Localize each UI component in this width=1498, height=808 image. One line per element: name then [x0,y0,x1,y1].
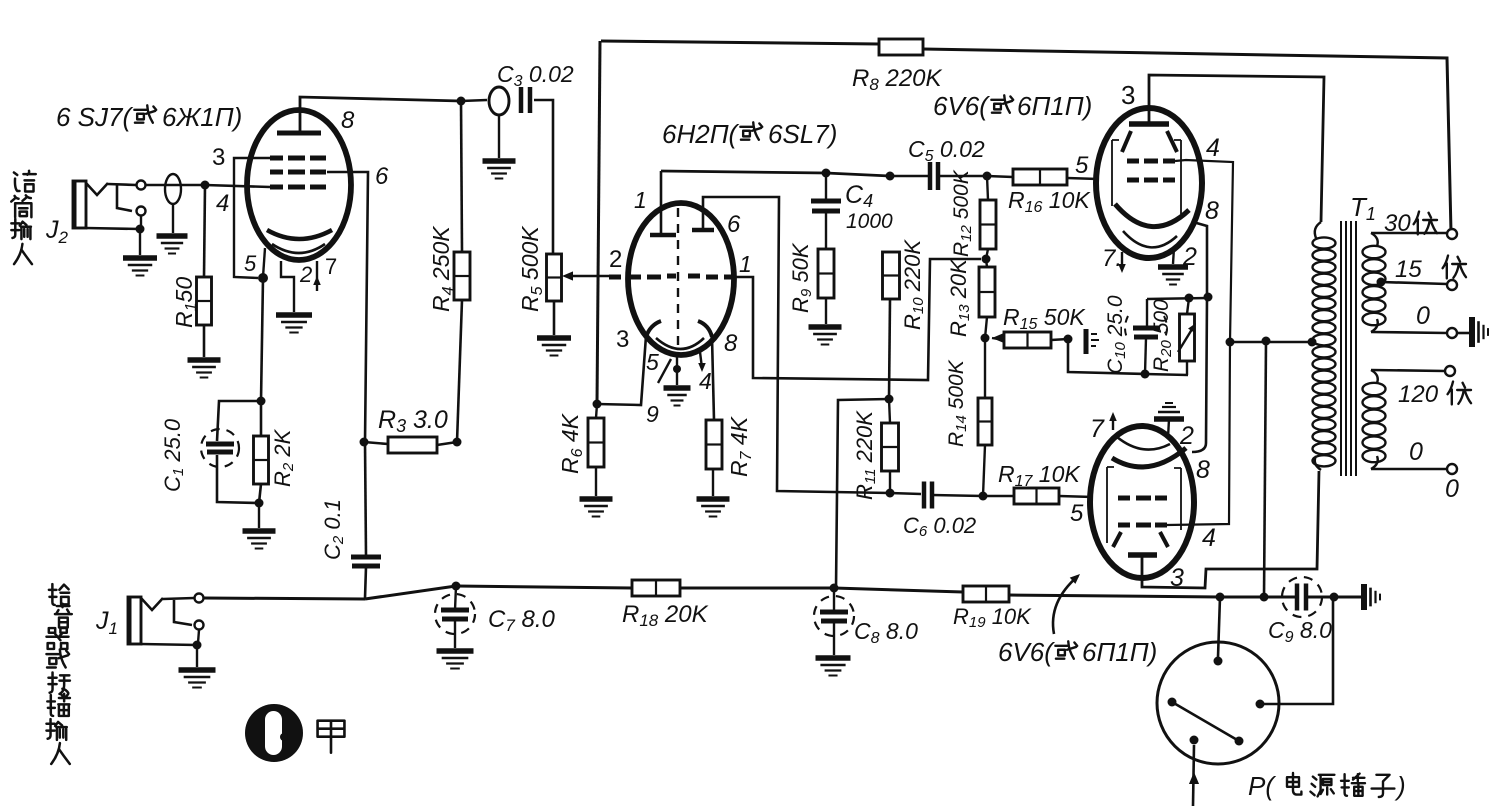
wire R5 wiper from 6H2P grid pin2 [569,275,609,278]
badge filled circle [245,704,303,762]
wire C2 bottom lead [365,567,366,598]
svg-text:8: 8 [724,330,738,357]
jack J2 body [73,181,86,228]
resistor R14 500K [978,398,992,445]
label R11 220K rotated [852,410,879,500]
svg-text:4: 4 [699,368,712,394]
resistor R9 50K [818,249,834,298]
pin label 3 V4 [1170,564,1184,592]
label 0 lower [1409,438,1423,466]
wire R2 ground stem [258,503,260,528]
ground under C3 oval [483,161,516,179]
node 15V tap [1377,278,1386,287]
svg-text:0: 0 [1409,438,1423,466]
label 120V [1398,381,1471,408]
wire grid node to 6SJ7 grid [205,185,270,187]
label R2 2K rotated [270,428,297,487]
node R12 top junction [983,172,992,181]
capacitor C1 dashed circle [201,429,239,467]
svg-text:1000: 1000 [846,210,893,233]
node R10 top junction [886,172,895,181]
svg-text:0: 0 [1416,302,1430,330]
svg-text:R17 10K: R17 10K [998,461,1081,490]
transformer core laminations [1341,221,1356,476]
svg-text:5: 5 [244,251,257,276]
caption pickup input [46,584,71,764]
wire C10 top lead [1146,299,1148,326]
resistor R10 220K [883,252,900,299]
label R14 500K rotated [945,359,970,447]
label jia character [318,721,345,753]
jack J2 ring stub [117,185,132,211]
svg-text:R5 500K: R5 500K [517,225,546,312]
tube V4 plate bar [1128,552,1157,558]
wire R14 top lead [984,338,986,398]
wire R12 bottom lead [986,249,988,259]
wire plate line to C5 [890,175,928,178]
wire C5 to R12 node [938,175,987,178]
pin label 4 V1 [216,190,229,217]
resistor R6 4K [588,418,604,467]
tube V1 grid row pin6 [270,170,326,175]
pin label 8 V4 [1196,456,1210,484]
wire R11 bottom lead [889,471,891,493]
label R7 4K rotated [726,415,755,477]
label R9 50K rotated [788,242,815,313]
wire J2 sleeve line [86,228,140,229]
tube V1 plate bar [277,131,321,136]
node R13R14 junction [981,334,990,343]
svg-text:R8 220K: R8 220K [852,65,943,94]
svg-text:120: 120 [1398,381,1439,408]
wire J1 ground stem [196,645,198,667]
pin label 4 V2 [699,368,712,394]
svg-text:3: 3 [616,326,629,353]
wire R12 top lead [987,176,988,200]
label tube V2 6H2P [662,119,837,149]
tube V3 plate bar [1129,121,1169,127]
wire rail R18 to C8 [680,587,834,590]
svg-text:R20 500: R20 500 [1150,299,1175,372]
capacitor C7 8.0 plates [441,610,469,619]
wire grid line to shield oval [146,184,205,187]
wire R20 bottom lead [1186,361,1188,375]
wire B+ vertical to rail [1264,341,1266,597]
svg-text:3: 3 [1170,564,1184,592]
tube V1 heater arc [272,244,325,253]
capacitor C10 dashed arcs [1125,316,1167,340]
node grid-R1 junction [201,181,210,190]
tube V4 cathode arc [1112,448,1186,467]
svg-text:6SL7): 6SL7) [768,119,837,149]
jack J1 ring stub [174,600,192,625]
label J1 [95,607,118,638]
wire cathode node down to C1R2 [261,278,263,401]
svg-text:R3 3.0: R3 3.0 [378,406,448,436]
wire V3 pin8 cathode lead [1193,222,1207,297]
pin label 6 V1 [375,163,389,190]
tube V4 heater arc [1117,437,1170,450]
wire R7 bottom lead [712,469,714,496]
tube V2 heater arc [656,338,704,349]
C3 shield oval [489,87,509,115]
node C7 junction [452,582,461,591]
wire rail to C9 [1264,596,1296,599]
label R18 20K [622,601,709,630]
label C10 25.0 rotated [1104,295,1129,374]
transformer secondary lower winding [1363,370,1386,469]
svg-text:4: 4 [1206,134,1220,162]
wire rail C8 to R19 [834,588,963,592]
wire R2 bottom lead [259,484,261,503]
wire R15 node down to bias bottom [1068,339,1145,374]
wire R9 bottom lead [825,298,827,324]
svg-text:C2 0.1: C2 0.1 [320,499,347,560]
node R3 left junction [360,438,369,447]
svg-text:C6 0.02: C6 0.02 [903,513,976,540]
ground under R2 [243,531,276,549]
tube V4 beam plate right [1160,532,1168,547]
svg-text:4: 4 [1202,524,1216,552]
label C4 [845,181,893,233]
label 0 corner [1445,475,1459,503]
tube V3 inner box [1112,140,1181,214]
caption microphone input [11,171,36,264]
svg-text:8: 8 [341,107,355,134]
svg-text:R4 250K: R4 250K [428,225,457,312]
ground above V4 inverted [1154,403,1184,419]
ground under R6 [580,499,613,517]
capacitor stub at R15 node [1086,329,1099,354]
wire 0V to ground [1457,332,1470,335]
wire to C3 oval [461,100,487,101]
svg-text:30: 30 [1384,210,1411,237]
wire plate line to R10 [826,173,890,176]
node bias bottom junction [1141,370,1150,379]
terminal 120V [1445,366,1455,376]
wire R11 top lead [889,399,890,423]
tube V1 heater stub pin7 with arrow [313,261,321,291]
svg-text:R16 10K: R16 10K [1008,187,1091,216]
svg-text:8: 8 [1205,197,1219,225]
ground under shield oval [157,236,188,254]
label R13 20K rotated [946,258,973,337]
label R20 500 rotated [1150,299,1175,372]
node R3 right junction [453,438,462,447]
tube V2 grid dashed row [609,276,734,277]
label R4 250K rotated [428,225,457,312]
wire rail C7 to R18 [456,586,632,588]
pin label 3 V2 [616,326,629,353]
label C9 8.0 [1268,617,1332,646]
pin label 5 V4 [1070,500,1084,527]
capacitor C7 dashed circle [435,594,475,634]
resistor R12 500K [980,200,996,249]
capacitor C2 0.1 plates [351,557,381,566]
plug P lower-left pin [1190,736,1199,745]
jack J1 ring contact [195,621,204,630]
wire V2 shield ground stem [676,369,678,385]
svg-text:6: 6 [375,163,389,190]
svg-text:6П1П): 6П1П) [1017,91,1092,121]
plug P top pin [1214,657,1223,666]
node primary centre tap [1308,338,1317,347]
terminal 15V [1447,280,1457,290]
label 0 upper [1416,302,1430,330]
svg-text:R2 2K: R2 2K [270,428,297,487]
plug P shorting bar [1172,702,1239,741]
svg-text:R14 500K: R14 500K [945,359,970,447]
wire C2 node to C7 node [365,586,456,599]
wire R3 left lead [364,442,388,444]
svg-text:6 SJ7(: 6 SJ7( [56,102,133,132]
wire C4 top lead [825,173,827,201]
jack J2 tip contact V [86,183,108,195]
svg-text:R10 220K: R10 220K [900,239,927,330]
transformer secondary upper winding [1363,233,1386,332]
svg-text:7: 7 [1090,415,1105,443]
wire V3 pin4 screen lead [1175,160,1233,342]
wire R10 bottom lead [889,299,890,399]
svg-text:7.: 7. [1102,245,1122,272]
resistor R2 2K [254,436,269,484]
wire 0V tap upper [1371,332,1447,333]
node Bplus rail junction [1260,593,1269,602]
label R5 500K rotated [517,225,546,312]
capacitor C5 0.02 plates [930,162,938,190]
svg-text:2: 2 [609,246,622,273]
label R8 220K [852,65,943,94]
label R1 50 rotated [171,277,200,328]
wire J1 ring to sleeve dot [198,630,199,643]
pin label 5 V3 [1075,152,1089,179]
pin label 1 V2 right [739,251,752,277]
ground under R7 [697,499,730,517]
potentiometer R15 50K with wiper arrow [992,332,1051,348]
wire NFB vertical to R6 node [597,41,600,404]
label tube V4 6V6 [998,637,1157,667]
resistor R7 4K [706,420,722,469]
node R10R11 junction [885,395,894,404]
svg-text:R7 4K: R7 4K [726,415,755,477]
pin label 5 V1 [244,251,257,276]
node B+ vertical junction [1262,337,1271,346]
node R11 bottom junction [886,489,895,498]
terminal 0V lower [1447,464,1457,474]
node C8 junction [830,584,839,593]
tube V3 6V6 envelope [1096,108,1202,258]
wire R6 bottom lead [595,467,597,496]
wire NFB top line right segment [923,49,1451,232]
svg-text:R13 20K: R13 20K [946,258,973,337]
tube V2 cathode hook left [646,321,661,337]
wire V2 pin3 cathode to R6 [597,336,646,405]
wire V2 pin8 cathode to R7 [712,337,714,420]
svg-text:6V6(: 6V6( [998,637,1055,667]
wire to right ground [1334,596,1362,599]
tube V2 shield stem and dot [673,352,681,373]
tube V1 6SJ7 envelope [247,110,351,260]
label J2 [45,216,69,247]
svg-text:R150: R150 [171,277,200,328]
pin label 7 V4 [1090,415,1105,443]
tube V1 heater pin2 path to ground [281,261,294,312]
capacitor C10 25.0 plates [1133,328,1159,337]
wire C1 bottom branch [217,455,259,503]
label tube V1 6SJ7 [56,102,242,132]
wire V4 pin4 screen lead [1167,342,1230,525]
wire R1 top lead [204,185,205,277]
ground under R1 [188,360,221,378]
svg-text:C10 25.0: C10 25.0 [1104,295,1129,374]
wire C3 oval stem [498,115,500,158]
tube V2 center divider dashed [677,208,679,352]
tube V3 cathode arc [1115,204,1189,227]
capacitor C8 8.0 plates [820,612,848,621]
wire C8 bottom lead [833,621,835,655]
svg-text:6Ж1П): 6Ж1П) [162,102,242,132]
node R12R13 junction [982,255,991,264]
ground under J2 [123,258,157,276]
ground right of C9 [1364,584,1380,610]
wire R16 right lead [1067,178,1098,179]
capacitor C6 0.02 plates [924,482,932,509]
label C2 0.1 rotated [320,499,347,560]
svg-text:0: 0 [1445,475,1459,503]
label C8 8.0 [854,618,918,647]
svg-text:3: 3 [212,144,225,171]
resistor R19 10K [963,586,1009,602]
node R20 top junction [1185,294,1194,303]
ground under C7 [437,651,474,669]
svg-text:R11 220K: R11 220K [852,410,879,500]
tube V4 screen dashed row [1118,523,1167,528]
jack J1 body [128,597,141,644]
wire V3 pin2 lead [1173,248,1174,264]
node R14 bottom junction [979,492,988,501]
wire R6 top lead [596,404,597,418]
node C1R2 top junction [257,397,266,406]
wire R15 right lead [1051,339,1068,340]
ground under R9 [809,327,842,345]
wire R3 node down to C2 [365,442,366,556]
capacitor C3 0.02 plates [521,87,530,113]
arrowhead R5 wiper [562,271,573,280]
label C7 8.0 [488,606,555,635]
wire 30V tap [1371,232,1447,235]
wire 15V tap [1381,282,1447,284]
plug P right pin [1256,700,1265,709]
wire shield oval stem [172,204,174,233]
jack J1 tip contact V [141,598,163,610]
svg-text:R15 50K: R15 50K [1003,304,1086,333]
svg-text:5: 5 [646,349,659,375]
ground under V1 heater [276,315,312,333]
svg-text:C9 8.0: C9 8.0 [1268,617,1332,646]
wire C10 bottom lead [1145,338,1146,374]
plug P lower-right pin [1235,737,1244,746]
svg-text:5: 5 [1070,500,1084,527]
label R17 10K [998,461,1081,490]
tube V3 pin7 stub arrow [1118,252,1126,273]
resistor R18 20K [632,580,680,596]
wire J2 ground stem [139,229,141,255]
svg-text:15: 15 [1395,256,1422,283]
wire R17 right lead [1059,496,1093,497]
wire V2 pin1 right grid lead [734,259,981,380]
label C1 25.0 rotated [160,418,187,492]
wire R3 right lead [437,442,457,445]
wire pin5 cathode lead [263,248,265,277]
svg-text:2: 2 [1182,243,1197,271]
tube V3 heater arc [1123,231,1177,247]
wire rail P to Bplus vert [1220,596,1264,599]
resistor R8 220K [879,39,923,55]
svg-text:8: 8 [1196,456,1210,484]
shield oval at J2 [165,174,181,204]
tube V2 right plate [692,228,714,233]
wire P top pin to rail [1218,597,1220,657]
capacitor C4 1000 plates [811,201,841,211]
pin label 2 V4 [1179,422,1194,450]
tube V4 6V6 envelope [1090,426,1194,578]
svg-text:9: 9 [646,401,659,427]
pin label 6 V2 [727,211,741,238]
wire R11 branch to B+ drop [836,399,889,588]
svg-text:3: 3 [1121,80,1135,110]
ground under C8 [816,658,851,676]
wire 120V tap [1371,370,1445,371]
pin label 9 V2 [646,401,659,427]
wire R5 bottom lead [553,301,556,335]
label P plug [1248,771,1406,801]
tube V3 beam plate left [1122,131,1131,152]
wire J2 ring to sleeve dot [140,216,142,226]
wire plate line to C6 [890,493,921,494]
wire mains lead with arrow [1189,745,1199,806]
label R19 10K [953,604,1032,631]
svg-text:2: 2 [1179,422,1194,450]
resistor R13 20K [979,267,995,317]
wire NFB top line left segment [601,41,879,44]
svg-text:1: 1 [739,251,752,277]
wire R2 top lead [260,401,263,436]
tube V4 pin7 stub arrow [1109,412,1117,430]
ground under V3 pin2 [1158,267,1188,285]
capacitor C1 25.0 plates [206,444,234,452]
wire cathode line to V4 [1192,297,1207,452]
pin label 8 V3 [1205,197,1219,225]
label 15V [1395,256,1466,283]
wire R4 bottom lead [457,300,462,442]
wire J1 sleeve line [141,644,197,645]
node R6 top junction [593,400,602,409]
wire R16 left lead [987,176,1013,177]
resistor R11 220K [882,423,899,471]
svg-text:C8 8.0: C8 8.0 [854,618,918,647]
pin label 7 V3 [1102,245,1122,272]
wire C3 to R5 top [534,100,553,254]
node R15 right junction [1064,335,1073,344]
wire screen node to primary tap [1230,341,1310,344]
capacitor C9 dashed circle [1282,577,1322,617]
potentiometer R5 500K [547,254,562,301]
node C1R2 bottom junction [255,499,264,508]
svg-text:5: 5 [1075,152,1089,179]
pin label 8 V2 [724,330,738,357]
tube V4 beam plate left [1113,532,1121,547]
wire pin3 to cathode node [234,158,270,278]
